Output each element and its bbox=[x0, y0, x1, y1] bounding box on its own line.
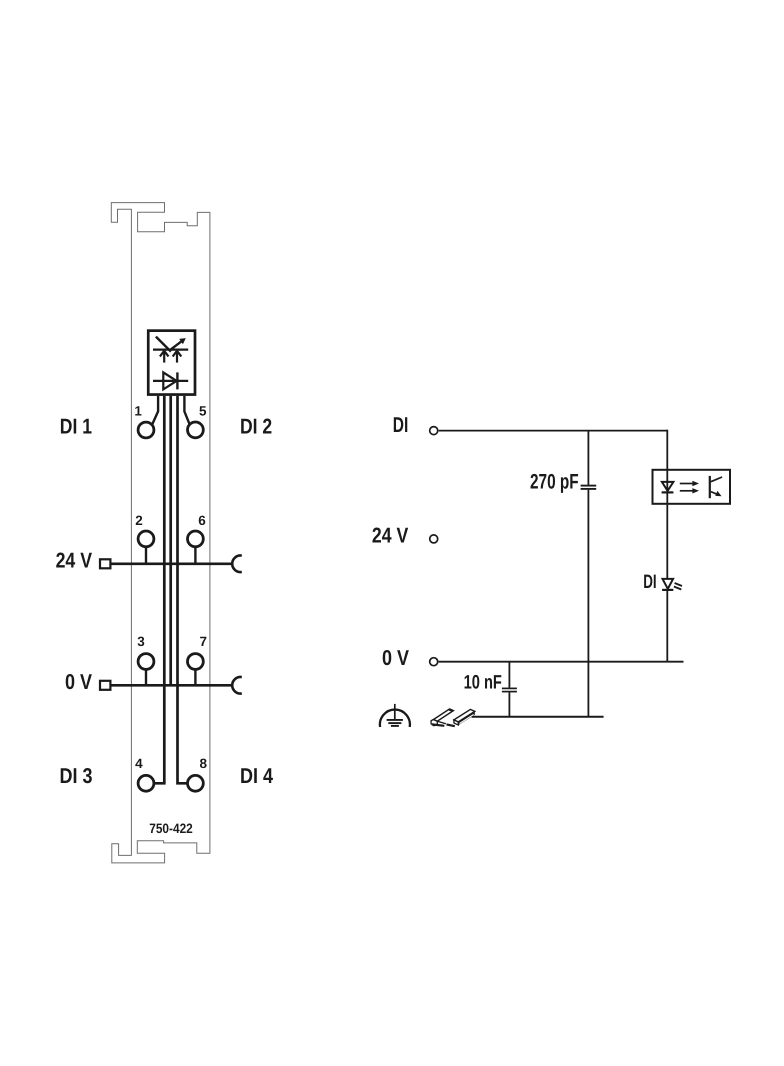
diode D1 in box bbox=[153, 372, 188, 389]
suppressor diode left bbox=[160, 351, 169, 363]
optocoupler internal vertical wire bbox=[666, 469, 668, 505]
terminal 6 bbox=[188, 531, 204, 547]
wire ground bus bbox=[472, 716, 604, 718]
wire 24V rail bbox=[111, 562, 233, 565]
stem terminal 6 bbox=[194, 546, 196, 564]
svg-text:8: 8 bbox=[199, 756, 207, 771]
svg-text:DI 1: DI 1 bbox=[60, 415, 92, 439]
terminal 5 bbox=[188, 422, 204, 438]
capacitor C1 270pF bbox=[581, 431, 597, 717]
svg-text:DI: DI bbox=[393, 413, 409, 437]
rail left flange far end cap bbox=[448, 709, 454, 712]
wire bus line left (to terminal 4) bbox=[154, 396, 164, 783]
svg-text:6: 6 bbox=[198, 513, 206, 528]
0V clamp contact arc bbox=[232, 677, 242, 694]
wire 0V horizontal bbox=[439, 661, 684, 663]
wire 0V rail bbox=[111, 684, 233, 687]
terminal 4 bbox=[138, 775, 154, 791]
wire optocoupler to LED bbox=[666, 505, 668, 579]
stem terminal 2 bbox=[145, 546, 147, 564]
LED DI indicator bbox=[662, 579, 682, 590]
rail left bottom lip bbox=[432, 724, 444, 725]
suppressor diagonal bbox=[156, 337, 171, 352]
wire DI vertical to optocoupler bbox=[666, 430, 668, 469]
stem terminal 7 bbox=[194, 669, 196, 686]
electronics box U1 bbox=[148, 331, 195, 395]
optocoupler LED bbox=[662, 482, 674, 493]
DIN rail symbol bbox=[431, 709, 475, 727]
svg-text:270 pF: 270 pF bbox=[530, 470, 579, 493]
24V feed square bbox=[100, 559, 110, 568]
capacitor C2 10nF bbox=[502, 662, 517, 717]
node DI terminal circle bbox=[430, 427, 438, 435]
24V clamp contact arc bbox=[232, 555, 242, 572]
ground earth symbol bbox=[380, 704, 410, 727]
svg-text:3: 3 bbox=[137, 634, 145, 649]
terminal 1 bbox=[138, 422, 154, 438]
suppressor arrow bbox=[169, 338, 186, 351]
stem terminal 3 bbox=[145, 669, 147, 686]
rail left flange top face bbox=[434, 709, 454, 721]
rail right flange front face bbox=[454, 720, 458, 725]
svg-text:4: 4 bbox=[135, 756, 143, 771]
suppressor symbol bar bbox=[153, 349, 188, 351]
svg-text:24 V: 24 V bbox=[372, 523, 409, 547]
node 24V terminal circle bbox=[430, 535, 438, 543]
terminal 3 bbox=[138, 654, 154, 670]
svg-text:DI 3: DI 3 bbox=[60, 764, 93, 788]
svg-text:2: 2 bbox=[135, 513, 143, 528]
svg-text:5: 5 bbox=[199, 404, 207, 419]
terminal 7 bbox=[188, 654, 204, 670]
wire LED to 0V bbox=[666, 590, 668, 662]
svg-text:DI 4: DI 4 bbox=[240, 764, 273, 788]
svg-text:DI 2: DI 2 bbox=[240, 415, 272, 439]
rail right flange side face bbox=[458, 711, 475, 725]
wire bus line right (to terminal 8) bbox=[178, 396, 188, 783]
svg-text:750-422: 750-422 bbox=[149, 821, 193, 836]
optocoupler U2 box bbox=[653, 470, 731, 504]
svg-text:7: 7 bbox=[199, 634, 207, 649]
svg-text:0 V: 0 V bbox=[382, 646, 410, 670]
svg-text:DI: DI bbox=[643, 571, 656, 593]
node 0V terminal circle bbox=[430, 658, 438, 666]
svg-text:1: 1 bbox=[134, 404, 142, 419]
terminal 8 bbox=[188, 775, 204, 791]
optocoupler phototransistor Q1 bbox=[710, 476, 722, 498]
optocoupler light arrow bottom bbox=[680, 488, 699, 493]
rail right flange top face bbox=[454, 709, 475, 722]
suppressor diode right bbox=[173, 351, 182, 363]
svg-text:10 nF: 10 nF bbox=[464, 672, 502, 694]
rail left flange front face bbox=[431, 720, 437, 726]
optocoupler light arrow top bbox=[680, 481, 699, 486]
wire DI horizontal bbox=[439, 430, 668, 432]
rail right bottom lip bbox=[447, 724, 455, 726]
module outline 750-422 housing bbox=[111, 203, 210, 863]
wire bus line middle (to 0V) bbox=[169, 396, 172, 685]
rail right flange side highlight bbox=[460, 715, 474, 724]
pin stub 5 from box bbox=[184, 396, 189, 424]
rail channel front edge bbox=[437, 721, 446, 724]
svg-text:0 V: 0 V bbox=[65, 670, 93, 694]
0V feed square bbox=[100, 681, 110, 690]
svg-text:24 V: 24 V bbox=[56, 548, 93, 572]
pin stub 1 from box bbox=[152, 396, 158, 424]
terminal 2 bbox=[138, 531, 154, 547]
